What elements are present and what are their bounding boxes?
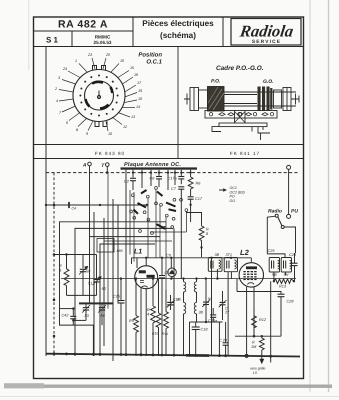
wire gang drop 102 xyxy=(101,313,103,325)
wire column x237 xyxy=(236,279,238,292)
wire R8 link xyxy=(186,213,201,220)
wire column x189.5 xyxy=(189,322,191,356)
coil padder primary xyxy=(184,302,186,356)
resistor R13 xyxy=(274,279,294,289)
svg-text:51: 51 xyxy=(88,282,92,286)
svg-text:FK 843 80: FK 843 80 xyxy=(95,151,125,156)
coil oscillator primary xyxy=(177,279,186,303)
svg-text:1: 1 xyxy=(60,269,62,273)
svg-text:L5: L5 xyxy=(253,371,257,375)
capacitor C15 xyxy=(113,279,125,356)
svg-text:C42: C42 xyxy=(62,314,70,318)
svg-text:.50: .50 xyxy=(100,314,106,318)
svg-text:3B: 3B xyxy=(215,253,220,257)
svg-text:FK 841 17: FK 841 17 xyxy=(230,151,260,156)
capacitor C17a xyxy=(168,170,185,185)
node y336 junctions xyxy=(253,335,263,338)
switch Radio/PU top terminal xyxy=(287,165,291,169)
svg-text:C 24: C 24 xyxy=(219,339,227,343)
svg-text:1M: 1M xyxy=(251,345,257,349)
capacitor C2 xyxy=(124,178,136,190)
svg-text:.53: .53 xyxy=(84,314,90,318)
rotary switch wafer xyxy=(73,66,125,127)
wire staircase 3 xyxy=(90,236,161,238)
svg-text:27: 27 xyxy=(224,311,230,315)
svg-text:C25: C25 xyxy=(268,249,276,253)
mounting screws xyxy=(209,113,273,116)
svg-text:RA 482 A: RA 482 A xyxy=(58,19,108,31)
capacitor C7 xyxy=(171,187,184,196)
capacitor C42 xyxy=(62,309,77,326)
wire bar drop x151 xyxy=(150,170,152,186)
svg-text:5B: 5B xyxy=(272,273,277,277)
svg-text:Position: Position xyxy=(138,52,162,59)
wire C25 link xyxy=(267,254,285,258)
left foot xyxy=(212,127,221,132)
svg-text:GO: GO xyxy=(230,199,236,203)
svg-text:R13: R13 xyxy=(279,285,287,289)
svg-text:C4: C4 xyxy=(72,206,77,210)
coil oscillator secondary xyxy=(194,279,196,303)
resistor R9 xyxy=(129,279,138,356)
wire bar drop x142 xyxy=(141,170,143,188)
wafer contact rivets xyxy=(79,75,118,117)
wire PU contact right xyxy=(284,227,295,253)
terminal A xyxy=(82,162,91,168)
bus screen y258 xyxy=(132,257,252,259)
P.O. coil block xyxy=(208,87,225,112)
capacitor C18 xyxy=(192,322,209,356)
wire left rail xyxy=(45,47,47,357)
capacitor C16 xyxy=(167,295,180,310)
svg-text:Plaque Antenne OC.: Plaque Antenne OC. xyxy=(124,162,181,168)
node C17 junction xyxy=(189,204,191,206)
wire column x181 xyxy=(180,196,182,279)
wire staircase 2 xyxy=(75,228,173,356)
wire dashed antenna bus xyxy=(46,172,298,174)
wire trimmer bottom link xyxy=(67,294,97,296)
variable capacitor 53 xyxy=(82,304,90,317)
center support xyxy=(235,111,246,124)
svg-text:3T1: 3T1 xyxy=(226,253,233,257)
wafer bottom tab xyxy=(95,121,107,127)
right end pin xyxy=(291,94,299,105)
left cylinder xyxy=(199,90,208,108)
capacitor C17 xyxy=(188,189,203,222)
svg-text:-5B5: -5B5 xyxy=(116,249,123,253)
svg-text:PU: PU xyxy=(291,208,298,214)
svg-text:RM/MC: RM/MC xyxy=(95,35,111,40)
svg-text:L2: L2 xyxy=(240,248,250,257)
wire box bottom xyxy=(60,304,94,356)
resistor R4 xyxy=(147,279,155,356)
svg-text:C15: C15 xyxy=(113,295,121,299)
svg-text:G.O.: G.O. xyxy=(263,79,274,85)
G.O. coil stripes xyxy=(258,87,273,112)
wire osc bottom link xyxy=(197,321,223,323)
capacitor C13 xyxy=(202,279,212,322)
svg-text:4: 4 xyxy=(56,99,58,103)
svg-text:R: R xyxy=(252,341,255,345)
svg-text:C28: C28 xyxy=(287,300,295,304)
svg-text:12: 12 xyxy=(123,125,127,129)
wire radio contact left down xyxy=(267,216,275,254)
svg-text:Cadre P.O.-G.O.: Cadre P.O.-G.O. xyxy=(216,65,264,72)
node osc link junctions xyxy=(205,321,207,323)
trimmer capacitor 51/52 xyxy=(88,255,107,296)
capacitor C23a xyxy=(208,308,217,323)
svg-text:Pièces électriques: Pièces électriques xyxy=(142,19,214,28)
Radiola logo box xyxy=(231,19,301,46)
terminal T xyxy=(101,163,109,169)
svg-text:9: 9 xyxy=(86,132,88,136)
svg-text:R: R xyxy=(206,228,209,232)
svg-text:L1: L1 xyxy=(134,249,142,256)
resistor R6 xyxy=(188,170,201,189)
rod body xyxy=(207,91,296,93)
wire gang link xyxy=(73,319,86,321)
node ground junctions xyxy=(53,352,273,358)
rotor contact arcs xyxy=(86,82,113,109)
svg-text:A: A xyxy=(82,163,87,169)
tube between coils xyxy=(224,94,257,96)
svg-text:R: R xyxy=(59,264,62,268)
svg-text:2: 2 xyxy=(54,87,57,91)
svg-text:5H: 5H xyxy=(284,273,289,277)
label Position O.C.1 xyxy=(138,52,162,66)
capacitor C24 xyxy=(219,322,229,356)
wire column x219.4 xyxy=(218,322,220,356)
right bracket xyxy=(283,88,291,111)
left bracket xyxy=(190,88,199,111)
variable capacitor 50b xyxy=(98,304,106,317)
wire L1 grid top xyxy=(136,258,138,268)
node link junctions xyxy=(65,253,67,255)
cadre antenna assembly xyxy=(184,87,299,141)
wire column x104 xyxy=(103,218,105,346)
wire switch vertical xyxy=(288,169,290,214)
border frame xyxy=(34,17,304,379)
switch radio contact xyxy=(275,214,278,217)
wire y336 link xyxy=(235,335,281,337)
right cylinder xyxy=(274,90,282,108)
wire bend to C28 xyxy=(237,292,281,294)
wire can pins xyxy=(211,271,213,356)
wafer pin numbers xyxy=(54,53,143,136)
svg-text:R12: R12 xyxy=(259,318,267,322)
arrow vers grille xyxy=(250,350,265,375)
capacitor C6 xyxy=(150,170,163,187)
svg-text:4: 4 xyxy=(147,313,149,317)
switch lever xyxy=(278,217,282,226)
wire staircase 1 xyxy=(60,222,167,304)
rotor center xyxy=(97,91,100,99)
resistor R1 xyxy=(59,255,69,296)
svg-text:O.C.1: O.C.1 xyxy=(146,59,162,66)
svg-text:C18: C18 xyxy=(201,328,209,332)
svg-text:1: 1 xyxy=(75,59,77,63)
svg-text:S 1: S 1 xyxy=(46,36,59,45)
wire C4 line xyxy=(46,204,147,206)
node R8 junction xyxy=(200,246,202,248)
wire column x126 xyxy=(125,170,127,356)
IF transformer can 3T1 xyxy=(224,253,237,356)
wire column x118 xyxy=(117,205,119,303)
svg-text:Radio: Radio xyxy=(268,208,282,214)
node C4 line junction xyxy=(99,204,101,206)
IF transformer can 5B xyxy=(269,258,279,277)
diode D1 xyxy=(168,258,177,279)
left end pin xyxy=(184,94,190,105)
capacitor C4 xyxy=(69,202,76,210)
resistor R12 xyxy=(252,308,267,336)
trimmer capacitor 50 xyxy=(79,255,91,296)
wire bar drop x175 xyxy=(174,170,176,185)
wire bar drop x168 xyxy=(167,170,169,190)
wire left dashed rail xyxy=(53,173,55,356)
capacitor C10 xyxy=(159,258,172,356)
svg-text:(schéma): (schéma) xyxy=(160,31,196,40)
box padding section xyxy=(97,239,114,253)
bar tuning gang xyxy=(79,302,113,304)
bus ground xyxy=(46,354,300,357)
wafer spokes xyxy=(59,58,137,131)
wire upper left link xyxy=(54,254,97,256)
wire cluster verticals xyxy=(108,174,186,309)
svg-text:14: 14 xyxy=(136,105,140,109)
wire C42 top link xyxy=(60,308,74,310)
node T junction xyxy=(106,171,109,174)
svg-text:R10: R10 xyxy=(152,332,158,336)
wire gang drop 86 xyxy=(85,313,87,320)
wafer top tab xyxy=(93,66,106,71)
wire C13 bottom link xyxy=(206,321,219,323)
svg-text:19: 19 xyxy=(138,89,142,93)
wire cluster links xyxy=(104,232,186,241)
wire antenna A down xyxy=(89,166,91,303)
wire bar drop x133 xyxy=(132,170,134,178)
node mid bus junctions xyxy=(120,277,295,282)
wire L2 top pin xyxy=(250,258,252,263)
wire staircase 4 xyxy=(100,244,155,356)
bus ground thick segment xyxy=(186,354,209,357)
svg-text:vers grille: vers grille xyxy=(250,367,265,371)
wire T to dashed bus xyxy=(106,166,108,172)
IF transformer can 5H xyxy=(281,258,291,277)
wire osc top link xyxy=(190,321,197,323)
wire L1 cathode pins xyxy=(140,288,142,356)
label OC arrow xyxy=(219,186,245,203)
switch contact bank xyxy=(130,187,188,235)
svg-text:24: 24 xyxy=(62,67,67,71)
svg-text:R: R xyxy=(147,308,150,312)
node dashed rail junctions xyxy=(53,204,56,338)
bus mid y278.6 xyxy=(61,278,296,280)
svg-text:Radiola: Radiola xyxy=(238,22,295,41)
node C42 junctions xyxy=(72,307,74,321)
svg-text:SERVICE: SERVICE xyxy=(252,39,281,45)
switch lower contact xyxy=(281,226,284,229)
IF transformer can 3B xyxy=(208,253,222,271)
wire column x174 xyxy=(173,228,175,356)
wire L2 cathode pins xyxy=(246,287,248,357)
wire antenna drop xyxy=(93,212,95,356)
right foot xyxy=(258,127,270,133)
node bus258 junctions xyxy=(145,257,232,259)
switch Radio/PU pole xyxy=(287,214,291,218)
coil padder secondary xyxy=(194,302,203,322)
wire column x113 xyxy=(112,199,114,361)
resistor R10 xyxy=(162,290,168,356)
bus plaque antenne thick bar xyxy=(121,167,198,169)
svg-text:R11: R11 xyxy=(162,332,168,336)
svg-text:C17: C17 xyxy=(195,197,203,201)
node dashed crossings xyxy=(132,172,192,174)
wire can5 pins xyxy=(273,272,275,281)
svg-text:C29: C29 xyxy=(289,253,297,257)
wire column x270.7 xyxy=(270,281,272,362)
tube L2 xyxy=(239,248,263,287)
capacitor C28 xyxy=(278,294,295,336)
resistor R 1M xyxy=(251,336,264,350)
tube L1 xyxy=(134,249,158,289)
resistor R8 xyxy=(199,219,209,257)
mounting plate xyxy=(205,111,277,119)
svg-text:25.06.53: 25.06.53 xyxy=(94,40,112,45)
trimmer capacitor 27 xyxy=(219,291,230,320)
capacitor C29 plates xyxy=(292,253,298,281)
svg-text:P.O.: P.O. xyxy=(211,79,220,85)
wire L1 plate top xyxy=(145,258,147,266)
svg-text:-52: -52 xyxy=(101,287,107,291)
base bar xyxy=(219,123,267,127)
resistor R11 xyxy=(152,279,161,356)
